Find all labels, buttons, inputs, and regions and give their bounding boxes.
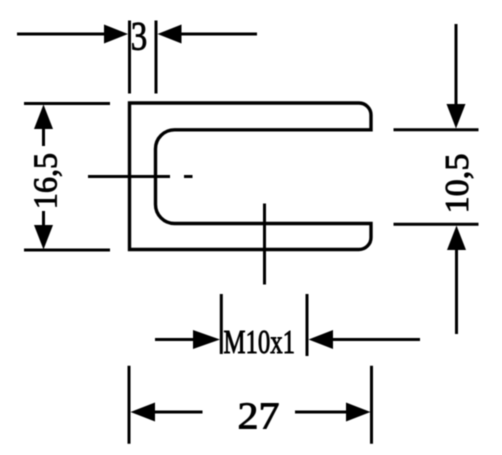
dim 3: right arrow line xyxy=(180,33,257,36)
dim 10,5: down arrowhead xyxy=(447,104,466,129)
dim 3: left arrowhead xyxy=(104,25,128,44)
dim 10,5: lower arrow line xyxy=(455,248,458,334)
svg-text:16,5: 16,5 xyxy=(28,153,65,210)
dim 16,5: top extension line xyxy=(24,102,110,105)
dim 16,5: lower shaft xyxy=(42,211,45,228)
svg-text:3: 3 xyxy=(131,14,148,59)
dim 3: right extension line xyxy=(155,21,158,94)
dim 10,5: upper arrow line xyxy=(455,24,458,106)
dim 3: left arrow line xyxy=(17,33,106,36)
dim 16,5: bottom extension line xyxy=(24,249,110,252)
svg-text:10,5: 10,5 xyxy=(439,154,476,214)
dim 3: left extension line xyxy=(128,21,131,94)
dim 16,5: upper shaft xyxy=(42,127,45,146)
dim 16,5: up arrowhead xyxy=(34,105,53,130)
dim 10,5: top extension line xyxy=(394,128,479,131)
dim 27: right shaft xyxy=(295,411,348,414)
dim 27: right arrowhead xyxy=(346,403,371,422)
dim 10,5: up arrowhead xyxy=(447,226,466,251)
svg-text:27: 27 xyxy=(238,396,280,438)
svg-text:M10x1: M10x1 xyxy=(224,324,296,361)
dim 3: right arrowhead xyxy=(158,25,182,44)
dim 27: left shaft xyxy=(153,411,203,414)
dim M10x1: right extension line xyxy=(306,294,309,356)
U-profile outline xyxy=(130,103,372,250)
dim 10,5: bottom extension line xyxy=(394,223,479,226)
dim M10x1: left arrowhead xyxy=(193,330,220,349)
dim M10x1: right arrowhead xyxy=(309,330,334,349)
dim 16,5: down arrowhead xyxy=(34,225,53,250)
dim M10x1: right arrow line xyxy=(331,338,420,341)
horizontal centerline xyxy=(88,175,193,178)
dim 27: right extension line xyxy=(370,366,373,444)
dim M10x1: left extension line xyxy=(220,294,223,354)
dim 27: left arrowhead xyxy=(131,403,156,422)
vertical centerline (M10x1 axis) xyxy=(263,204,266,285)
dim M10x1: left arrow line xyxy=(155,338,195,341)
dim 27: left extension line xyxy=(128,366,131,444)
